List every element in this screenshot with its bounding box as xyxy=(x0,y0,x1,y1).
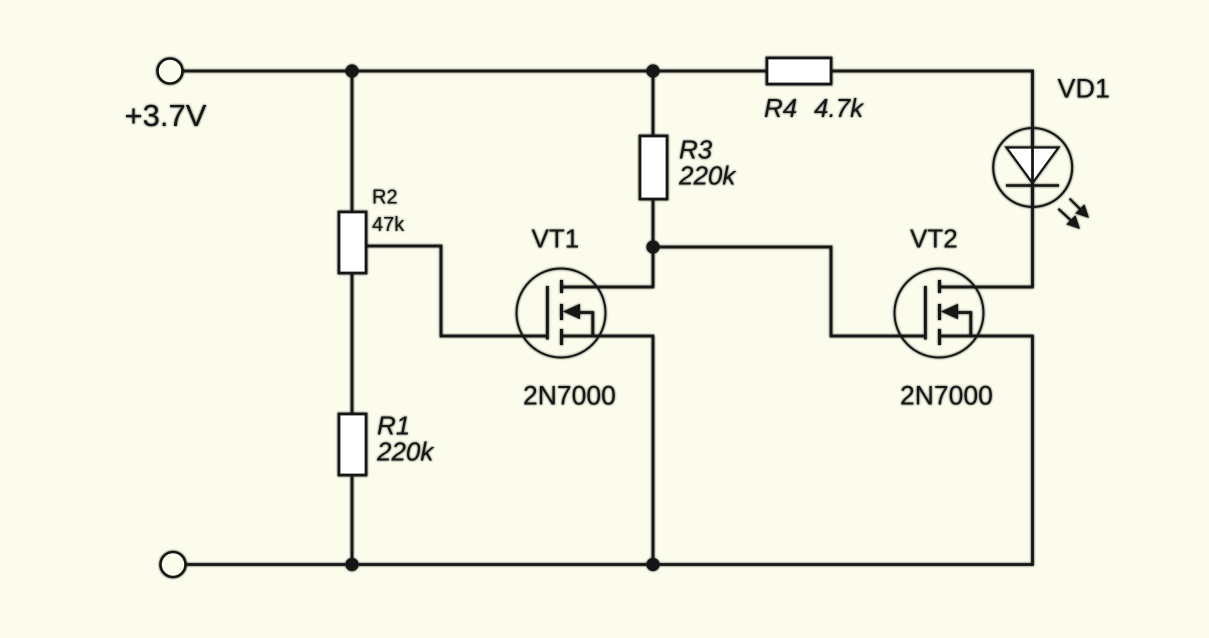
junction dot bottom rail / left column xyxy=(345,558,358,571)
wire right vertical (top rail corner down through LED to VT2 drain) xyxy=(1031,70,1034,287)
junction dot top rail / left column xyxy=(345,64,358,77)
svg-text:220k: 220k xyxy=(678,161,737,191)
wire VT1 drain stub xyxy=(561,286,654,289)
junction dot node A xyxy=(646,240,659,253)
wire left column bottom (R1 to bottom rail) xyxy=(351,475,354,565)
resistor R4 xyxy=(767,58,831,84)
svg-text:2N7000: 2N7000 xyxy=(900,381,993,411)
wire R2 tap to VT1 gate xyxy=(366,246,547,336)
terminal top-left xyxy=(158,59,183,84)
svg-text:2N7000: 2N7000 xyxy=(523,381,616,411)
wire mid column bottom (VT1 source to bottom rail) xyxy=(652,336,655,565)
svg-text:47k: 47k xyxy=(372,214,405,236)
transistor Q2 VT2 xyxy=(895,269,984,358)
svg-text:VT1: VT1 xyxy=(532,224,580,254)
transistor Q1 VT1 xyxy=(517,269,606,358)
wire node A to VT2 gate xyxy=(653,247,925,336)
junction dot bottom rail / mid column xyxy=(646,558,659,571)
svg-text:VT2: VT2 xyxy=(910,224,958,254)
wire bottom rail xyxy=(186,563,1034,566)
wire VT2 source stub to right vertical down xyxy=(939,336,1034,566)
wire mid column (top rail to R3) xyxy=(652,71,655,136)
wire VT2 drain stub xyxy=(939,286,1034,289)
svg-text:220k: 220k xyxy=(376,437,435,467)
svg-text:VD1: VD1 xyxy=(1058,74,1111,104)
LED VD1 xyxy=(993,128,1089,229)
wire left column top (top rail to R2) xyxy=(351,71,354,213)
wire left column middle (R2 to R1) xyxy=(351,273,354,414)
wire mid column (R3 to node A to VT1 drain) xyxy=(652,199,655,287)
svg-text:R2: R2 xyxy=(372,187,398,209)
svg-text:+3.7V: +3.7V xyxy=(125,98,207,133)
resistor R3 xyxy=(640,136,667,199)
svg-text:R4: R4 xyxy=(764,93,797,123)
wire top rail xyxy=(183,70,1034,73)
terminal bottom-left xyxy=(161,552,186,577)
junction dot top rail / mid column xyxy=(646,64,659,77)
svg-text:4.7k: 4.7k xyxy=(814,93,865,123)
resistor R2 xyxy=(339,212,366,273)
wire VT1 source stub xyxy=(561,335,654,338)
resistor R1 xyxy=(339,414,366,475)
